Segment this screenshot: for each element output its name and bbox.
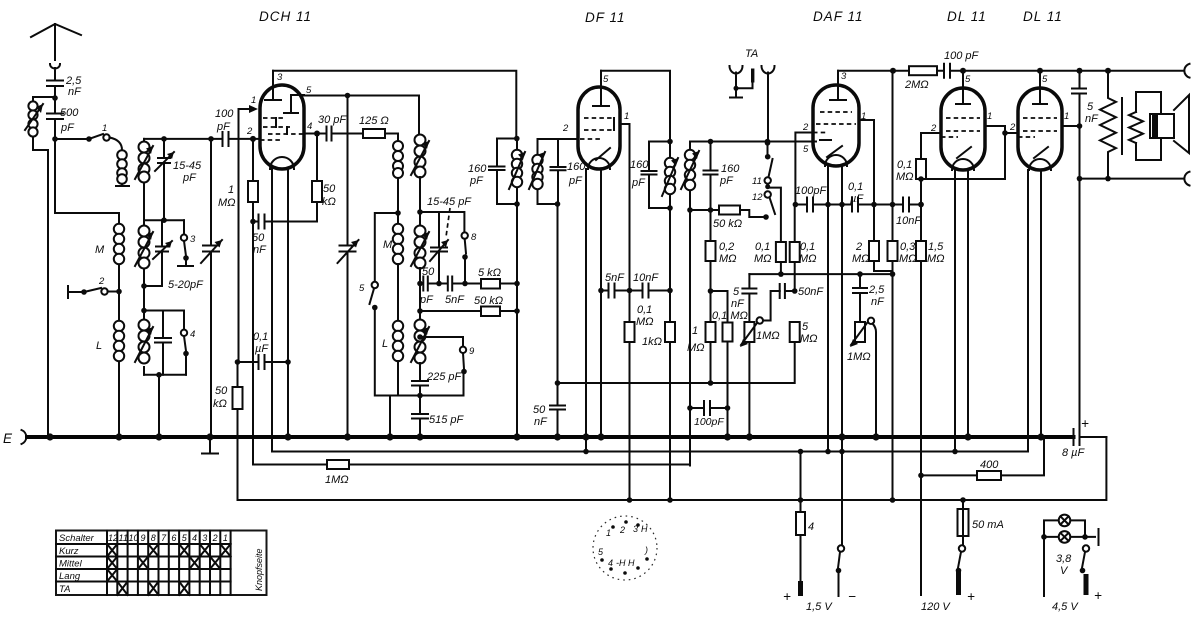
svg-text:1,5 V: 1,5 V	[806, 601, 833, 613]
wire AF return y383	[558, 342, 795, 383]
switch 11/12	[765, 154, 771, 160]
wire B+ rail DCH	[273, 71, 516, 137]
switch1 coupling coil	[110, 138, 130, 187]
svg-text:8 µF: 8 µF	[1062, 447, 1086, 459]
svg-text:0,1: 0,1	[848, 181, 863, 193]
resistor 0.1M DL grid	[921, 132, 941, 134]
svg-text:pF: pF	[60, 122, 75, 134]
tube DCH11 internal grids (dashed)	[260, 118, 304, 140]
svg-text:kΩ: kΩ	[213, 398, 227, 410]
tube DL11b envelope	[1018, 88, 1062, 170]
IF1 secondary coil	[532, 155, 542, 165]
svg-text:4: 4	[192, 533, 197, 543]
tube DCH11 pin3 top stem	[265, 71, 281, 100]
tube DL11b cathode dome	[1029, 159, 1051, 170]
tube DAF11 cathode dome	[825, 155, 847, 166]
svg-text:515 pF: 515 pF	[429, 414, 465, 426]
capacitor 515pF	[412, 414, 428, 437]
tube DAF11 filament legs	[828, 166, 842, 452]
svg-text:11: 11	[119, 533, 128, 543]
svg-text:pF: pF	[568, 175, 583, 187]
wire pin2 riser + 100pF	[795, 133, 813, 205]
svg-text:50 mA: 50 mA	[972, 519, 1004, 531]
fuse 50mA	[962, 500, 964, 505]
tube DL11a envelope	[941, 88, 985, 170]
IF1 primary tank	[489, 139, 517, 205]
svg-text:MΩ: MΩ	[899, 253, 917, 265]
transformer secondary zigzag	[1129, 112, 1143, 143]
svg-text:1: 1	[692, 325, 698, 337]
svg-text:+: +	[1081, 416, 1090, 431]
node IF2 sec bottom	[687, 207, 693, 213]
osc secondary M coil	[419, 212, 421, 226]
svg-text:pF: pF	[182, 172, 197, 184]
svg-text:nF: nF	[253, 244, 267, 256]
table X marks TA row	[117, 582, 189, 596]
switch 1.5V minus	[841, 452, 843, 546]
trimmer 15-45pF antenna	[158, 139, 170, 220]
svg-text:50nF: 50nF	[798, 286, 824, 298]
capacitor 10nF	[903, 198, 921, 212]
osc M bottom wire caps 50pF 5nF	[417, 281, 423, 287]
wire wiper to 50nF	[763, 291, 780, 321]
battery 4.5V electrodes	[1084, 574, 1089, 595]
capacitor 5nF	[601, 284, 630, 298]
capacitor 225pF	[412, 381, 428, 414]
resistor 1M AVC	[327, 460, 349, 469]
tuning gang capacitor 1	[203, 139, 219, 437]
wire B+ line y500	[238, 437, 1107, 500]
wire IF2 primary drop	[669, 208, 671, 291]
antenna coil	[33, 97, 55, 437]
svg-text:0,1 MΩ: 0,1 MΩ	[712, 310, 748, 322]
IF2 primary tank	[642, 142, 671, 209]
svg-text:10: 10	[129, 533, 139, 543]
resistor 0.1M (11 contact)	[776, 242, 786, 262]
svg-text:DF 11: DF 11	[585, 10, 626, 25]
tube DCH11 pin1 grid arrow	[239, 108, 253, 110]
svg-text:5-20pF: 5-20pF	[168, 279, 204, 291]
tank L bottom rail	[144, 375, 186, 437]
node rail DL1 stem	[960, 68, 966, 74]
svg-text:MΩ: MΩ	[927, 253, 945, 265]
IF2 secondary coil	[685, 150, 695, 160]
svg-text:5: 5	[306, 85, 312, 96]
svg-text:L: L	[382, 338, 388, 350]
wire lamp to bar	[1085, 529, 1099, 545]
capacitor 100pF coupling	[795, 198, 852, 212]
potentiometer 1M tone	[855, 322, 865, 342]
svg-text:2MΩ: 2MΩ	[904, 79, 929, 91]
svg-text:50 kΩ: 50 kΩ	[474, 295, 503, 307]
tube DAF11 diode plate	[820, 139, 831, 141]
resistor 0.1M (second)	[794, 205, 796, 243]
ground symbol	[202, 437, 218, 454]
capacitor 100pF grid	[223, 132, 229, 146]
terminal output bottom	[1184, 172, 1189, 186]
svg-text:Lang: Lang	[59, 571, 81, 582]
svg-text:DL 11: DL 11	[1023, 9, 1063, 24]
trimmer 5-20pF	[144, 220, 168, 286]
tube DCH11 cathode dome	[270, 157, 294, 169]
resistor 0.2M	[710, 210, 712, 241]
svg-text:1: 1	[624, 111, 629, 122]
svg-text:120 V: 120 V	[921, 601, 951, 613]
wire DAF anode rail	[838, 71, 1183, 85]
lamps 3.8V	[1044, 520, 1085, 537]
wire pin5 rail	[304, 96, 419, 136]
tube DF11 anode wedge	[596, 148, 610, 160]
svg-text:2: 2	[98, 276, 105, 287]
tube DCH11 pin5 internal electrode	[284, 95, 304, 113]
tube DCH11 envelope	[260, 85, 304, 169]
svg-text:Mittel: Mittel	[59, 559, 83, 570]
tube DL11b internal grids	[1018, 118, 1057, 137]
transformer primary zigzag	[1100, 71, 1116, 179]
svg-text:10nF: 10nF	[896, 215, 922, 227]
wire DF pin5 rail	[601, 71, 670, 142]
wire IF1 sec drop + 50nF	[550, 204, 565, 437]
svg-text:0,1: 0,1	[755, 241, 770, 253]
tube DL11a filament legs	[955, 170, 968, 452]
svg-text:4,5 V: 4,5 V	[1052, 601, 1079, 613]
svg-text:1: 1	[228, 184, 234, 196]
capacitor 30pF	[327, 127, 364, 141]
table X marks Mittel row	[107, 557, 220, 570]
svg-text:1,5: 1,5	[928, 241, 944, 253]
svg-text:2: 2	[619, 525, 625, 535]
resistor 50k detector	[719, 206, 740, 215]
resistor 2M	[869, 241, 879, 261]
svg-text:100 pF: 100 pF	[944, 50, 980, 62]
band chain primary M coil	[118, 213, 120, 437]
svg-text:100: 100	[215, 108, 234, 120]
osc secondary L coil	[415, 320, 426, 331]
resistor 125ohm	[363, 129, 385, 138]
grid wire to DCH	[144, 138, 260, 140]
svg-text:2: 2	[246, 126, 253, 137]
svg-text:30 pF: 30 pF	[318, 114, 347, 126]
node gang2	[345, 93, 351, 99]
capacitor 100pF coupling top	[944, 64, 950, 78]
svg-text:kΩ: kΩ	[322, 196, 336, 208]
svg-text:225 pF: 225 pF	[426, 371, 463, 383]
osc primary coil A	[393, 141, 403, 151]
svg-text:0,2: 0,2	[719, 241, 734, 253]
svg-text:50: 50	[422, 266, 435, 278]
resistor 0.1M AF takeoff	[711, 290, 728, 292]
svg-text:1: 1	[987, 111, 992, 122]
switch 9 wire	[420, 337, 463, 347]
svg-text:DL 11: DL 11	[947, 9, 987, 24]
resistor 0.1M DF	[629, 291, 631, 323]
tube DAF11 internal grids	[813, 112, 856, 133]
battery 120V electrodes	[956, 571, 961, 595]
trimmer 15-45pF osc	[431, 212, 447, 284]
svg-text:5: 5	[359, 283, 365, 294]
switch 4	[183, 311, 185, 330]
svg-text:DAF 11: DAF 11	[813, 9, 864, 24]
antenna symbol	[31, 24, 81, 48]
wire A (AF bus)	[749, 273, 892, 275]
resistor 2M ohm coupling	[909, 66, 937, 75]
tube DAF11 envelope	[813, 85, 859, 166]
svg-text:3: 3	[277, 72, 283, 83]
node rail DL2 stem	[1037, 68, 1043, 74]
svg-text:160: 160	[567, 161, 586, 173]
svg-text:5: 5	[802, 321, 809, 333]
svg-text:): )	[644, 545, 648, 555]
node rail transformer	[1105, 68, 1111, 74]
switch 1	[55, 138, 86, 140]
chassis bus wire	[27, 435, 1074, 439]
resistor 1Mohm grid leak	[252, 139, 254, 181]
IF1 secondary tank	[538, 139, 579, 204]
svg-text:10nF: 10nF	[633, 272, 659, 284]
svg-text:-H H: -H H	[616, 558, 635, 568]
capacitor 8uF electrolytic	[1074, 429, 1107, 445]
IF2 primary coil	[665, 158, 675, 168]
svg-text:3: 3	[190, 234, 196, 245]
svg-text:160: 160	[630, 159, 649, 171]
tube DAF11 top stem pin3	[830, 71, 846, 100]
svg-text:0,1: 0,1	[800, 241, 815, 253]
capacitor 5nF output	[1072, 89, 1086, 94]
svg-text:E: E	[3, 431, 13, 446]
svg-text:50: 50	[533, 404, 546, 416]
wire IF1 bottom drop	[516, 204, 518, 437]
wire DL2 pin1 + 5nF line	[1062, 71, 1080, 429]
tube DL11b top stem pin5	[1033, 71, 1047, 104]
node IF1 sec bottom	[555, 201, 561, 207]
svg-text:1kΩ: 1kΩ	[642, 336, 662, 348]
switch 4.5V	[1083, 545, 1089, 551]
resistor 1k DF	[669, 291, 671, 323]
svg-text:100pF: 100pF	[795, 185, 827, 197]
svg-text:125 Ω: 125 Ω	[359, 115, 389, 127]
resistor 5M	[790, 322, 800, 342]
wire AVC drop	[252, 222, 254, 465]
svg-text:2,5: 2,5	[868, 284, 885, 296]
svg-text:50: 50	[215, 385, 228, 397]
svg-text:TA: TA	[745, 48, 758, 60]
tank A bottom rail	[144, 219, 184, 221]
capacitor 2.5nF	[47, 78, 63, 97]
battery 1.5V plus electrode	[798, 581, 803, 596]
tube DL11b filament legs	[1028, 170, 1041, 452]
svg-text:pF: pF	[469, 175, 484, 187]
svg-text:15-45: 15-45	[173, 160, 202, 172]
secondary M coil	[143, 220, 145, 319]
table X marks Lang row	[107, 569, 117, 582]
IF1 primary coil	[512, 150, 522, 160]
node pin4	[314, 131, 320, 137]
wire 120V feed chain	[920, 133, 922, 579]
tube DL11b anode wedge	[1034, 147, 1048, 158]
tube DF11 internal grids	[580, 118, 614, 139]
node 50nF left	[250, 219, 256, 225]
svg-text:nF: nF	[534, 416, 548, 428]
svg-text:nF: nF	[1085, 113, 1099, 125]
tube DL11a cathode dome	[952, 159, 974, 170]
svg-text:0,1: 0,1	[253, 331, 268, 343]
svg-text:5: 5	[965, 74, 971, 85]
potentiometer 1M volume	[744, 322, 754, 342]
svg-text:1: 1	[1064, 111, 1069, 122]
svg-text:4: 4	[608, 558, 613, 568]
svg-text:2: 2	[212, 533, 218, 543]
bus junction dots	[46, 433, 53, 440]
resistor 1M detector load	[710, 261, 712, 322]
svg-text:50 kΩ: 50 kΩ	[713, 218, 742, 230]
svg-text:+: +	[967, 589, 976, 604]
svg-text:MΩ: MΩ	[799, 253, 817, 265]
svg-text:1MΩ: 1MΩ	[756, 330, 780, 342]
svg-text:0,1: 0,1	[897, 159, 912, 171]
svg-text:3: 3	[202, 533, 207, 543]
capacitor 50nF	[253, 215, 317, 229]
svg-text:400: 400	[980, 459, 999, 471]
svg-text:TA: TA	[59, 584, 70, 595]
svg-text:1: 1	[606, 528, 611, 538]
node trimmer top	[161, 136, 167, 142]
resistor 50k decoupling	[237, 362, 239, 387]
switch 2	[68, 286, 82, 298]
svg-text:5: 5	[733, 286, 740, 298]
svg-text:160: 160	[468, 163, 487, 175]
svg-text:8: 8	[151, 533, 156, 543]
tube DL11a anode wedge	[957, 147, 971, 158]
svg-text:0,1: 0,1	[637, 304, 652, 316]
node switch1 branch	[52, 136, 58, 142]
svg-text:2: 2	[855, 241, 862, 253]
svg-text:MΩ: MΩ	[754, 253, 772, 265]
svg-text:5: 5	[1087, 101, 1094, 113]
capacitor 50nF AF	[780, 284, 795, 298]
svg-text:500: 500	[60, 107, 79, 119]
svg-text:5: 5	[1042, 74, 1048, 85]
svg-text:50: 50	[252, 232, 265, 244]
wire AVC grid feed drop	[238, 109, 240, 362]
secondary L coil	[139, 320, 150, 331]
wire main drop to band chain	[55, 139, 119, 213]
resistor 1.5M	[916, 241, 926, 261]
antenna coil core arrow	[25, 104, 43, 130]
capacitor 0.1uF	[238, 355, 289, 369]
svg-text:µF: µF	[850, 193, 864, 205]
svg-text:8: 8	[471, 232, 477, 243]
resistor 50k pin4	[316, 134, 318, 222]
capacitor 500pF	[47, 98, 63, 139]
svg-text:1: 1	[251, 95, 256, 106]
switch 3	[183, 220, 185, 234]
wire pin4 stub	[304, 133, 327, 135]
wire DAF pin1 drop	[859, 120, 874, 241]
svg-text:12: 12	[752, 192, 763, 203]
wire DF pin1 drop	[620, 124, 630, 291]
capacitor 10nF	[630, 284, 671, 298]
resistor 50k osc	[420, 310, 481, 312]
svg-text:DCH 11: DCH 11	[259, 9, 312, 24]
tube DCH11 internal steps	[276, 118, 287, 134]
svg-text:Schalter: Schalter	[59, 533, 95, 544]
svg-text:3,8: 3,8	[1056, 553, 1072, 565]
svg-text:1: 1	[102, 123, 107, 134]
svg-text:Knopfseite: Knopfseite	[254, 548, 264, 591]
capacitor L tank	[155, 311, 171, 375]
svg-text:MΩ: MΩ	[636, 316, 654, 328]
terminal output top	[1184, 64, 1189, 78]
IF2 secondary tank	[690, 142, 816, 211]
node M tank bottom	[141, 283, 147, 289]
svg-text:MΩ: MΩ	[687, 342, 705, 354]
capacitor 5nF AF	[742, 274, 756, 322]
svg-text:nF: nF	[871, 296, 885, 308]
svg-text:1MΩ: 1MΩ	[325, 474, 349, 486]
svg-text:pF: pF	[631, 177, 646, 189]
svg-text:MΩ: MΩ	[800, 333, 818, 345]
output bottom rail	[1080, 178, 1184, 180]
tube DF11 cathode dome	[588, 158, 610, 169]
svg-text:9: 9	[469, 346, 475, 357]
resistor 5k	[481, 279, 500, 289]
svg-text:9: 9	[141, 533, 146, 543]
node IF1 bottom	[514, 201, 520, 207]
svg-text:3: 3	[633, 524, 638, 534]
svg-text:4: 4	[808, 521, 814, 533]
svg-text:5 kΩ: 5 kΩ	[478, 267, 501, 279]
svg-text:4: 4	[307, 121, 312, 132]
svg-text:6: 6	[171, 533, 176, 543]
tube DF11 top stem pin5	[593, 71, 609, 106]
svg-text:pF: pF	[216, 121, 231, 133]
osc tank M top wire + switch 8	[420, 212, 464, 232]
wire AVC line y464.5	[253, 464, 327, 466]
svg-text:100pF: 100pF	[694, 416, 724, 428]
svg-text:5: 5	[603, 74, 609, 85]
svg-text:11: 11	[752, 176, 762, 187]
svg-text:H: H	[641, 524, 648, 534]
svg-text:−: −	[848, 589, 857, 604]
svg-text:0,3: 0,3	[900, 241, 916, 253]
table X marks Kurz row	[107, 544, 231, 557]
svg-text:nF: nF	[68, 86, 82, 98]
svg-text:12: 12	[108, 533, 118, 543]
tube DL11a internal grids	[941, 118, 980, 137]
tube DF11 envelope	[578, 87, 620, 169]
node antenna coil tap	[52, 95, 58, 101]
osc secondary coil A	[415, 135, 426, 146]
node pin2 1Mohm junction	[250, 136, 256, 142]
capacitor 100pF detector	[690, 401, 728, 415]
svg-text:pF: pF	[419, 294, 434, 306]
svg-text:pF: pF	[719, 175, 734, 187]
svg-text:+: +	[783, 589, 792, 604]
transformer core	[1121, 98, 1123, 154]
svg-text:1: 1	[223, 533, 228, 543]
speaker	[1136, 92, 1161, 160]
node rail 5nF	[1077, 68, 1083, 74]
svg-text:50: 50	[323, 183, 336, 195]
wire detector drop	[689, 210, 691, 466]
secondary A coil	[143, 139, 145, 220]
svg-text:1MΩ: 1MΩ	[847, 351, 871, 363]
svg-text:Kurz: Kurz	[59, 546, 79, 557]
svg-text:MΩ: MΩ	[896, 171, 914, 183]
svg-text:3: 3	[841, 71, 847, 82]
svg-text:M: M	[383, 239, 393, 251]
resistor 0.3M	[888, 241, 898, 261]
